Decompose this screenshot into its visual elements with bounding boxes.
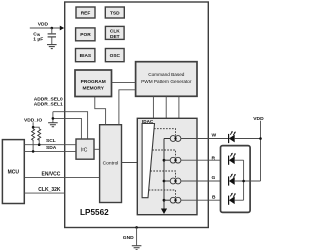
svg-text:CLK_32K: CLK_32K bbox=[38, 187, 61, 193]
svg-text:DET: DET bbox=[110, 34, 120, 40]
LED R diode D2 bbox=[229, 153, 236, 165]
svg-text:MEMORY: MEMORY bbox=[82, 86, 104, 92]
wire W anode to VDD rail bbox=[235, 138, 261, 140]
block CLK DET bbox=[105, 26, 124, 40]
label SCL bbox=[46, 138, 56, 144]
svg-text:SCL: SCL bbox=[46, 138, 56, 144]
svg-text:CLK: CLK bbox=[110, 28, 120, 34]
dashed control line B bbox=[149, 190, 176, 197]
pin label B bbox=[212, 194, 216, 200]
label IDAC bbox=[142, 119, 154, 124]
block PROGRAM MEMORY bbox=[75, 70, 112, 97]
label VDD top bbox=[38, 21, 49, 27]
svg-text:BIAS: BIAS bbox=[80, 53, 92, 59]
LED B diode D4 bbox=[229, 193, 236, 205]
IC outline U1 LP5562 bbox=[65, 2, 209, 228]
wire VDD input bbox=[30, 27, 61, 29]
svg-text:W: W bbox=[212, 133, 217, 139]
svg-text:ADDR_SEL1: ADDR_SEL1 bbox=[34, 102, 63, 108]
common sink rail bbox=[163, 139, 165, 210]
wire R anode to bus bbox=[235, 159, 244, 161]
current source B bbox=[164, 197, 229, 203]
block Command Based PWM Pattern Generator bbox=[136, 62, 197, 97]
svg-text:MCU: MCU bbox=[8, 170, 20, 176]
wire B anode to bus bbox=[235, 199, 244, 201]
junction rail G bbox=[163, 180, 166, 183]
ground GND pin bbox=[132, 246, 142, 250]
svg-text:R: R bbox=[212, 155, 216, 161]
svg-text:LP5562: LP5562 bbox=[80, 208, 109, 217]
ground CIN bbox=[47, 45, 57, 49]
block Control bbox=[100, 125, 122, 203]
svg-text:TSD: TSD bbox=[110, 11, 120, 17]
wire SDA bbox=[24, 150, 76, 152]
svg-text:OSC: OSC bbox=[110, 53, 121, 59]
wire pullup SDA to SDA bbox=[32, 140, 34, 151]
block TSD bbox=[105, 7, 124, 18]
svg-text:CIN: CIN bbox=[33, 31, 40, 37]
svg-text:PWM Pattern Generator: PWM Pattern Generator bbox=[141, 79, 192, 84]
wire PWM to IDAC bus 2 bbox=[165, 96, 167, 118]
block POR bbox=[76, 28, 95, 41]
dashed control line R bbox=[152, 150, 175, 157]
svg-text:I²C: I²C bbox=[81, 148, 88, 154]
IDAC trapezoid DAC symbol bbox=[142, 124, 154, 198]
wire PWM to IDAC bus 1 bbox=[152, 96, 154, 118]
ground ADDR_SEL bbox=[48, 123, 58, 127]
current source G bbox=[164, 178, 229, 184]
pin label W bbox=[212, 133, 217, 139]
svg-text:G: G bbox=[212, 175, 216, 181]
svg-text:VDD: VDD bbox=[38, 21, 49, 27]
pin label G bbox=[212, 175, 216, 181]
junction GND pin bbox=[135, 226, 138, 229]
label LP5562 bbox=[80, 208, 109, 217]
label VDD_IO bbox=[24, 118, 42, 124]
junction ADDR_SEL1 bbox=[52, 117, 55, 120]
label 1 uF bbox=[33, 37, 43, 43]
RGB LED module box bbox=[221, 146, 251, 213]
pin label R bbox=[212, 155, 216, 161]
wire ADDR stub to ground bbox=[52, 112, 54, 123]
wire PWM to Control top bbox=[119, 90, 136, 125]
wire CLK_32K bbox=[24, 192, 64, 194]
LED G diode D3 bbox=[229, 174, 236, 186]
LED W diode D1 bbox=[229, 131, 236, 143]
junction rail B bbox=[163, 199, 166, 202]
svg-text:SDA: SDA bbox=[46, 145, 57, 151]
svg-text:VDD: VDD bbox=[253, 116, 264, 122]
label GND bbox=[123, 235, 134, 241]
resistor pullup SCL bbox=[38, 129, 41, 140]
anode bus RGB bbox=[243, 160, 245, 200]
junction bus G bbox=[242, 180, 245, 183]
wire GND bbox=[136, 227, 138, 245]
svg-text:1 µF: 1 µF bbox=[33, 37, 43, 43]
junction VDD W bbox=[259, 137, 262, 140]
block OSC bbox=[105, 49, 124, 62]
dashed control line W bbox=[154, 129, 176, 136]
wire pullup SCL to SCL bbox=[38, 139, 40, 145]
current source R bbox=[164, 157, 229, 163]
MCU block bbox=[2, 140, 24, 204]
junction VDD_IO bbox=[32, 126, 35, 129]
arrow VDD into IC bbox=[60, 26, 64, 31]
wire EN/VCC bbox=[24, 176, 99, 178]
junction VDD cap bbox=[51, 27, 54, 30]
wire PWM to IDAC bus 3 bbox=[178, 96, 180, 118]
dashed control line G bbox=[150, 171, 175, 178]
label CLK_32K bbox=[38, 187, 61, 193]
block IDAC current sink section bbox=[137, 118, 197, 214]
block I2C interface bbox=[76, 139, 94, 159]
block BIAS bbox=[76, 49, 95, 62]
VDD rail right bbox=[260, 121, 262, 181]
wire Control to IDAC trapezoid bbox=[122, 162, 143, 164]
svg-text:REF: REF bbox=[81, 11, 91, 17]
label SDA bbox=[46, 145, 57, 151]
current source W bbox=[164, 136, 229, 142]
label ADDR_SEL0 bbox=[34, 96, 63, 102]
svg-text:EN/VCC: EN/VCC bbox=[42, 172, 61, 178]
label CIN bbox=[33, 31, 40, 37]
wire I2C to Control bbox=[94, 148, 100, 150]
label ADDR_SEL1 bbox=[34, 102, 63, 108]
svg-text:GND: GND bbox=[123, 235, 134, 241]
label EN/VCC bbox=[42, 172, 61, 178]
svg-text:ADDR_SEL0: ADDR_SEL0 bbox=[34, 96, 63, 102]
svg-text:Command Based: Command Based bbox=[148, 72, 185, 77]
wire PROGMEM to Control top bbox=[95, 97, 106, 125]
svg-text:POR: POR bbox=[80, 32, 91, 38]
svg-text:B: B bbox=[212, 194, 216, 200]
junction rail R bbox=[163, 159, 166, 162]
wire SCL bbox=[24, 144, 76, 146]
junction SDA bbox=[32, 150, 35, 153]
label VDD right bbox=[253, 116, 264, 122]
capacitor CIN bbox=[48, 28, 56, 44]
svg-text:Control: Control bbox=[103, 161, 119, 167]
wire G anode to VDD rail bbox=[235, 180, 261, 182]
pullup feed stub bbox=[33, 122, 39, 128]
block REF bbox=[76, 7, 95, 18]
wire ADDR_SEL0 to I2C bbox=[53, 112, 88, 139]
wire ADDR_SEL1 to I2C bbox=[53, 118, 82, 139]
resistor pullup SDA bbox=[32, 127, 35, 141]
wire PROGMEM to PWM bbox=[112, 81, 136, 83]
junction SCL bbox=[38, 143, 41, 146]
svg-text:PROGRAM: PROGRAM bbox=[81, 79, 106, 85]
rail down arrow to GND bbox=[161, 209, 167, 215]
